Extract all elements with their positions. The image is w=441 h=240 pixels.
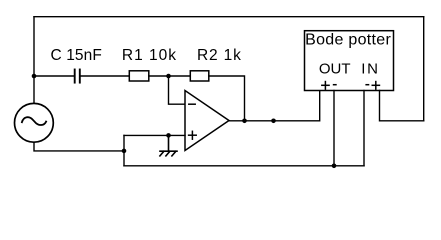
wire op-amp output to OUT+ pin xyxy=(229,91,320,121)
wire bottom bus xyxy=(124,165,364,167)
pin OUT- xyxy=(333,91,335,166)
node feedback-output junction xyxy=(242,119,247,124)
AC source V1 xyxy=(15,103,54,142)
wire source bottom xyxy=(34,142,124,151)
node on output wire xyxy=(271,119,276,124)
svg-text:R1 10k: R1 10k xyxy=(122,47,177,64)
wire to capacitor xyxy=(34,75,74,77)
node inverting input junction xyxy=(166,74,171,79)
ground xyxy=(160,135,177,156)
pin IN+ xyxy=(380,91,424,121)
svg-text:Bode potter: Bode potter xyxy=(305,31,391,48)
wire capacitor to R1 xyxy=(81,75,130,77)
op-amp U1 xyxy=(185,91,229,151)
wire right vertical xyxy=(423,17,425,121)
label OUT polarity +- xyxy=(321,81,337,90)
svg-text:OUT: OUT xyxy=(319,61,351,78)
resistor R2 xyxy=(190,71,209,81)
node ground junction xyxy=(166,133,171,138)
wire top feedback xyxy=(34,16,424,18)
wire R2 to feedback corner xyxy=(209,76,245,121)
node input junction xyxy=(32,74,37,79)
node OUT- bus junction xyxy=(332,164,337,169)
svg-text:R2 1k: R2 1k xyxy=(197,47,242,64)
resistor R1 xyxy=(129,71,149,81)
wire left vertical xyxy=(33,17,35,104)
wire non-inverting input xyxy=(124,134,185,136)
Bode potter instrument box xyxy=(305,31,394,91)
svg-text:IN: IN xyxy=(361,61,379,78)
svg-text:C 15nF: C 15nF xyxy=(51,47,102,64)
pin IN- xyxy=(363,91,365,166)
wire inverting input branch xyxy=(169,76,186,104)
wire junction vertical xyxy=(123,135,125,165)
node source-bottom junction xyxy=(122,149,127,154)
capacitor C 15nF xyxy=(75,70,80,83)
wire R1 to R2 xyxy=(149,75,191,77)
label IN polarity -+ xyxy=(365,81,380,90)
